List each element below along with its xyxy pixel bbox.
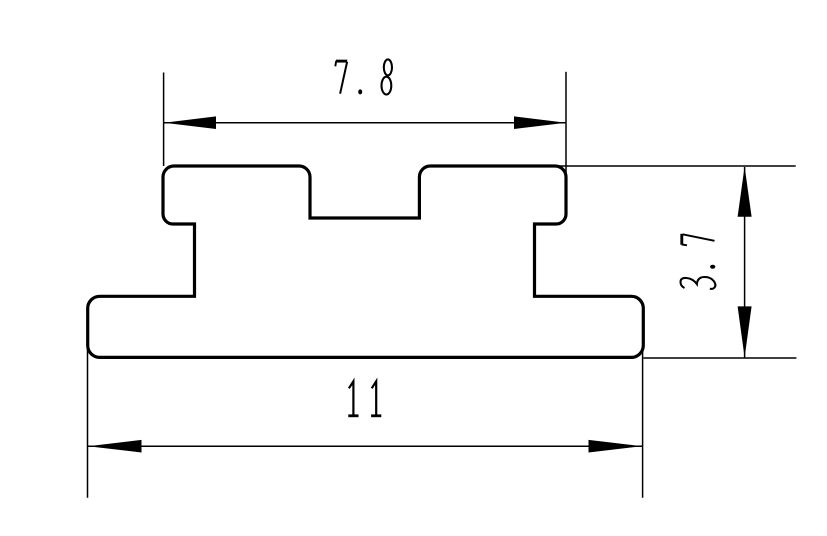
dim 7.8 left extension line [163,73,165,167]
dim 11 right arrowhead [589,440,643,453]
profile outline (extrusion cross-section) [88,166,644,357]
dim 3.7 top extension line [556,165,796,167]
digit 3 [681,277,716,289]
dim text 3.7 (rotated 90 CCW) [681,234,716,289]
dim 7.8 right arrowhead [514,116,566,129]
dim 11 dimension line [88,445,642,447]
dim 3.7 dimension line [744,167,746,358]
dim text 11 : second digit 1 [371,381,381,416]
dim 7.8 left arrowhead [164,116,216,129]
dim 3.7 bottom extension line [644,357,797,359]
dim 11 right extension line [642,350,644,498]
dim 3.7 top arrowhead [738,167,752,217]
dim 7.8 right extension line [565,72,567,176]
dim text 7.8 : decimal point [358,89,362,94]
decimal point [710,265,715,269]
dim 3.7 bottom arrowhead [738,306,752,357]
digit 7 [682,234,715,246]
dim 7.8 dimension line [164,122,566,124]
dim 11 left extension line [87,348,89,498]
dim 11 left arrowhead [88,440,142,453]
dim text 11 : first digit 1 [348,381,358,416]
dim text 7.8 : digit 7 [335,61,347,94]
dim text 7.8 : digit 8 [382,59,393,94]
